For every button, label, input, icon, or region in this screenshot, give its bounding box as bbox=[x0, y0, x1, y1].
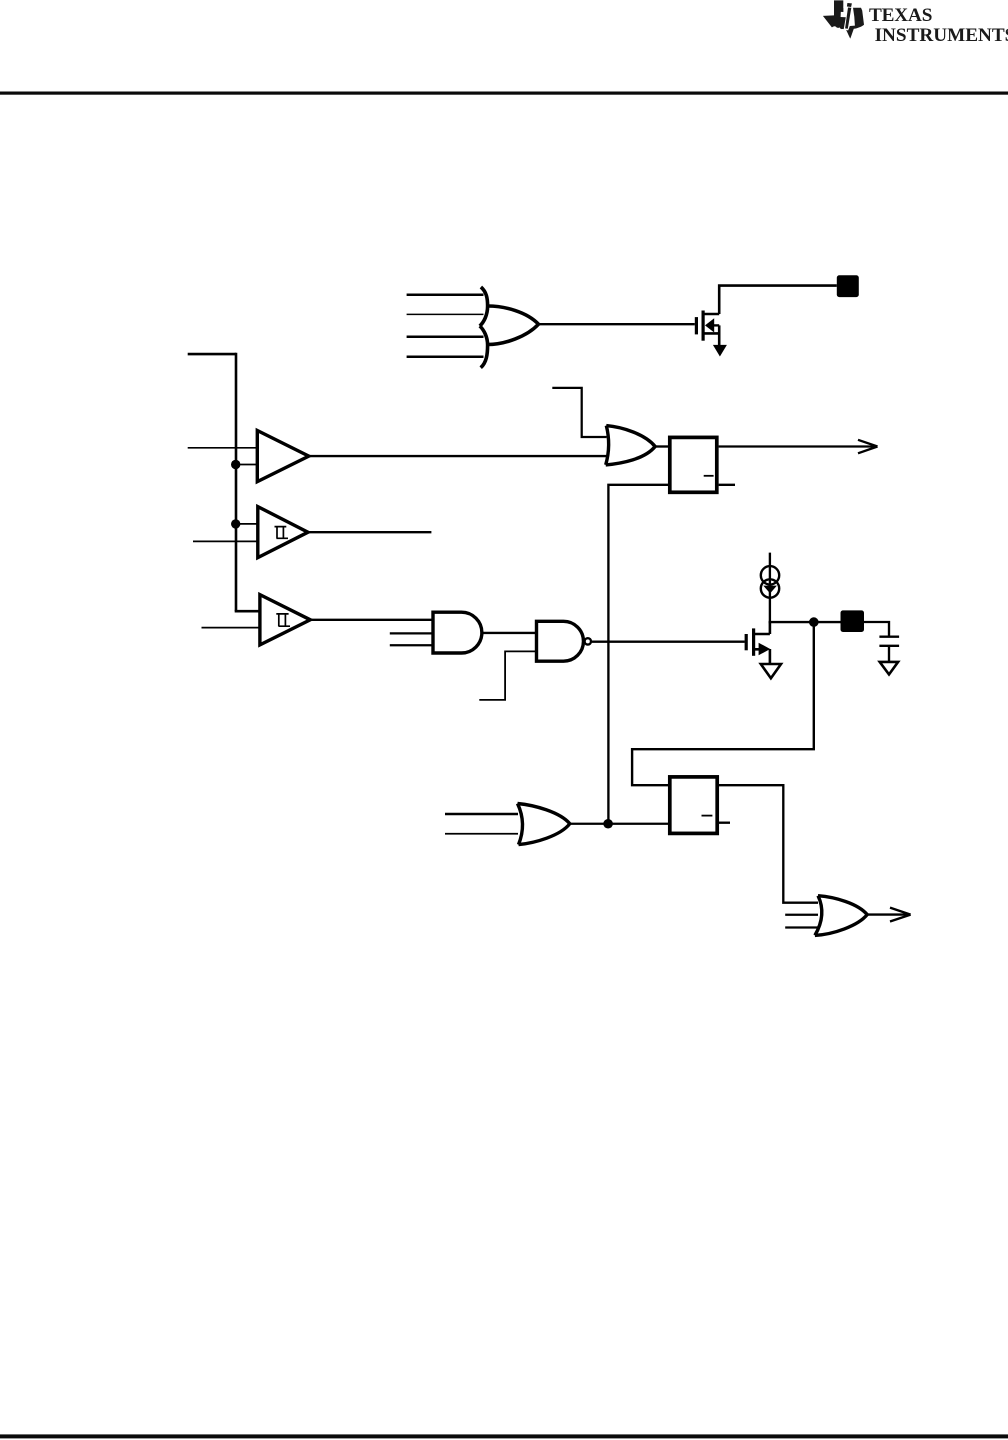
wire pad2 to capacitor bbox=[864, 622, 889, 636]
wire OR3 output to box2 bbox=[570, 823, 668, 825]
wire Q2 source down bbox=[769, 649, 772, 664]
transistor Q2 (NMOS) bbox=[746, 628, 770, 655]
wire node to pad2 bbox=[769, 621, 841, 623]
or-gate OR3 bbox=[518, 804, 570, 845]
ground (open triangle) under Q2 bbox=[761, 664, 781, 678]
wire AND1 output to NAND1 bbox=[482, 632, 537, 634]
buffer BUF3 (schmitt) bbox=[260, 595, 310, 645]
hysteresis glyph BUF3 bbox=[276, 614, 290, 626]
pad2 (filled square terminal) bbox=[841, 610, 865, 632]
wire capacitor to ground bbox=[888, 647, 890, 662]
node junction dot bbox=[809, 617, 819, 627]
wire BUF2 stub from bus bbox=[236, 523, 259, 525]
wire OR2 output to box1 bbox=[655, 445, 668, 447]
wire Q1 drain to pad1 bbox=[719, 286, 837, 314]
wire OR1 output to Q1 gate bbox=[539, 323, 695, 325]
wire box2 output down to OR4 bbox=[719, 785, 818, 903]
buffer BUF1 bbox=[257, 431, 309, 482]
inverter bubble NAND1 bbox=[585, 638, 591, 644]
wire OR4 output with arrow bbox=[867, 913, 909, 915]
hysteresis glyph BUF2 bbox=[275, 527, 289, 539]
node junction dot on bus at BUF1 bbox=[231, 460, 240, 469]
or-gate OR1 input wires bbox=[407, 295, 484, 357]
node junction dot at OR3 output bbox=[603, 819, 613, 829]
top rule bbox=[0, 92, 1008, 95]
wire bus elbow into BUF3 bbox=[236, 610, 261, 611]
wire box1 right stub bbox=[719, 484, 735, 486]
wire OR3 input top bbox=[445, 813, 518, 815]
wire BUF2 input line bbox=[193, 540, 259, 542]
wire OR3 input bottom bbox=[445, 833, 518, 835]
wire Q1 source with arrow down bbox=[718, 325, 721, 346]
bottom rule bbox=[0, 1434, 1008, 1438]
wire AND1 middle input stub bbox=[390, 632, 433, 634]
or-gate OR2 top input elbow wire bbox=[552, 388, 606, 437]
block box2 bbox=[670, 777, 717, 834]
wire vertical bus bbox=[235, 353, 238, 611]
ground (open triangle) under capacitor bbox=[880, 662, 898, 675]
transistor Q1 (NMOS) bbox=[696, 311, 719, 341]
wire box2 right stub bbox=[719, 822, 730, 824]
wire OR4 input stubs bbox=[785, 915, 818, 928]
TI logo Texas glyph bbox=[823, 0, 864, 38]
wire box1 bottom-left input bbox=[608, 485, 668, 824]
or-gate OR4 bbox=[815, 896, 867, 936]
node junction dot on bus at BUF2 bbox=[231, 519, 240, 528]
wire BUF1 input line bbox=[188, 447, 259, 449]
wire box1 output with arrow bbox=[719, 445, 877, 447]
current source I1 bbox=[761, 553, 779, 623]
capacitor C1 bbox=[879, 637, 899, 646]
wire BUF1 stub from bus bbox=[236, 464, 259, 466]
wire BUF3 output to AND1 bbox=[310, 619, 433, 621]
or-gate OR1 (4-input, extended back) bbox=[480, 287, 539, 368]
wire top-left horizontal bbox=[188, 353, 236, 356]
pad1 (filled square terminal) bbox=[837, 275, 859, 297]
wire AND1 bottom input stub bbox=[390, 644, 433, 646]
wire BUF2 output bbox=[308, 531, 431, 533]
block box1 bbox=[670, 437, 717, 492]
and-gate AND1 bbox=[433, 612, 482, 653]
buffer BUF2 (schmitt) bbox=[258, 507, 308, 558]
wire feedback from node down-left to box2 bbox=[632, 622, 814, 785]
minus label in box2 bbox=[702, 815, 713, 817]
or-gate OR2 bbox=[606, 426, 655, 465]
minus label in box1 bbox=[704, 475, 714, 477]
nand-gate NAND1 bbox=[537, 621, 584, 661]
wire NAND1 output to Q2 gate bbox=[592, 641, 745, 643]
wire BUF1 output to OR2 bbox=[309, 455, 607, 457]
wire NAND1 bottom input L-stub bbox=[479, 651, 536, 700]
wire BUF3 input line bbox=[202, 627, 262, 629]
wire Q2 drain up to node bbox=[769, 622, 772, 634]
